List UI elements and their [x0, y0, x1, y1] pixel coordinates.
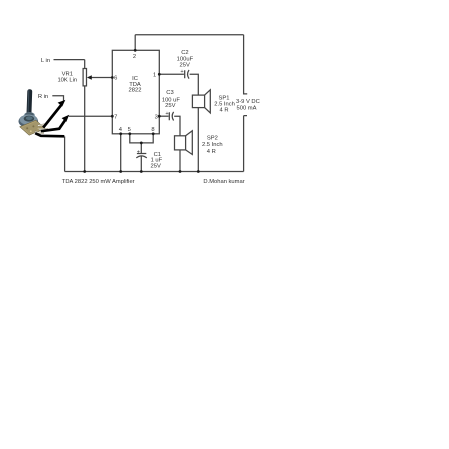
node pin 1 junction [158, 73, 161, 76]
svg-text:5: 5 [128, 127, 131, 133]
node C1-ground junction [140, 170, 143, 173]
svg-text:R in: R in [38, 94, 48, 100]
node SP2-ground junction [179, 170, 182, 173]
wire L-in lead [54, 59, 85, 61]
wire bottom ground rail [65, 171, 244, 173]
svg-text:C2: C2 [181, 50, 188, 56]
svg-text:SP2: SP2 [207, 136, 218, 142]
wire VR1 bottom to ground rail [84, 86, 86, 172]
svg-text:25V: 25V [180, 63, 190, 69]
node pin 8 junction [152, 132, 155, 135]
speaker SP1 [192, 90, 210, 113]
wire pin 7 lead [69, 115, 113, 117]
wire SP2 to ground rail [179, 150, 181, 172]
svg-text:3: 3 [155, 114, 158, 120]
wire R-in lead [52, 96, 63, 101]
potentiometer photo: terminal pins [35, 124, 48, 134]
svg-text:25V: 25V [151, 164, 161, 170]
svg-text:+: + [180, 69, 183, 75]
wire SP1 to ground rail [197, 108, 199, 172]
node pin 4 junction [119, 132, 122, 135]
svg-text:2.5 Inch: 2.5 Inch [214, 101, 235, 107]
node VR1-ground junction [83, 170, 86, 173]
svg-text:D.Mohan kumar: D.Mohan kumar [203, 179, 244, 185]
wire pin 2 stub [134, 35, 136, 51]
svg-text:6: 6 [114, 76, 117, 82]
wiper arrowhead of VR1 [87, 75, 92, 80]
node bracket-C1 junction [140, 142, 143, 145]
pointer line from pot ground terminal to ground drop [35, 133, 64, 136]
potentiometer photo: base plate [20, 120, 45, 135]
svg-text:TDA 2822 250 mW Amplifier: TDA 2822 250 mW Amplifier [62, 179, 135, 185]
svg-text:8: 8 [151, 127, 154, 133]
pointer arrow from pot wiper terminal to pin 7 wire [41, 115, 69, 131]
potentiometer photo: bushing nut [24, 112, 35, 118]
node pin 3 junction [158, 115, 161, 118]
op-amp IC U1 TDA2822 body [112, 50, 159, 134]
node SP1-ground junction [197, 170, 200, 173]
svg-text:100uF: 100uF [177, 57, 194, 63]
wire top supply rail [135, 34, 243, 36]
wire pin 4 stub to ground [120, 134, 122, 172]
wire C3 to SP2 [174, 116, 180, 136]
svg-text:2.5 Inch: 2.5 Inch [202, 142, 223, 148]
wire right rail lower (battery -) [244, 116, 247, 172]
wire C1 to ground rail [140, 156, 142, 171]
svg-text:L in: L in [41, 58, 50, 64]
svg-text:10K Lin: 10K Lin [57, 78, 77, 84]
capacitor C1 plates [136, 154, 147, 158]
wire pin 1 to C2 [159, 73, 184, 75]
svg-text:+: + [137, 149, 140, 155]
wire VR1 wiper to pin 6 [91, 77, 113, 79]
wire pin 3 to C3 [159, 115, 168, 117]
wire VR1 top [84, 60, 86, 69]
potentiometer VR1 body [83, 69, 86, 86]
svg-text:25V: 25V [165, 103, 175, 109]
svg-text:1: 1 [153, 73, 156, 79]
svg-text:4 R: 4 R [207, 149, 216, 155]
svg-text:1 uF: 1 uF [151, 157, 163, 163]
svg-text:+: + [165, 111, 168, 117]
svg-text:2822: 2822 [129, 88, 142, 94]
capacitor C3 plates [169, 112, 173, 121]
svg-text:4 R: 4 R [219, 108, 228, 114]
wire C2 to SP1 [190, 74, 199, 95]
wire right rail upper (battery +) [244, 35, 248, 94]
wire pin 5 / pin 8 bracket [130, 134, 153, 143]
svg-text:500 mA: 500 mA [237, 106, 257, 112]
potentiometer photo: shaft [26, 89, 32, 116]
speaker SP2 [175, 131, 193, 155]
pointer arrow from pot terminal to R-in stub [43, 100, 65, 128]
node pin 5 junction [128, 132, 131, 135]
potentiometer photo: body [19, 115, 39, 128]
node pin 2 junction [134, 49, 137, 52]
capacitor C2 plates [185, 70, 189, 79]
node pin 7 junction [111, 115, 114, 118]
svg-text:3-9 V DC: 3-9 V DC [236, 99, 260, 105]
svg-text:C3: C3 [166, 90, 173, 96]
wire bracket to C1 [140, 143, 142, 153]
wire left drop from pot [64, 136, 66, 171]
svg-text:2: 2 [133, 54, 136, 60]
node pin4-ground junction [119, 170, 122, 173]
svg-text:7: 7 [114, 114, 117, 120]
node pin 6 junction [111, 76, 114, 79]
